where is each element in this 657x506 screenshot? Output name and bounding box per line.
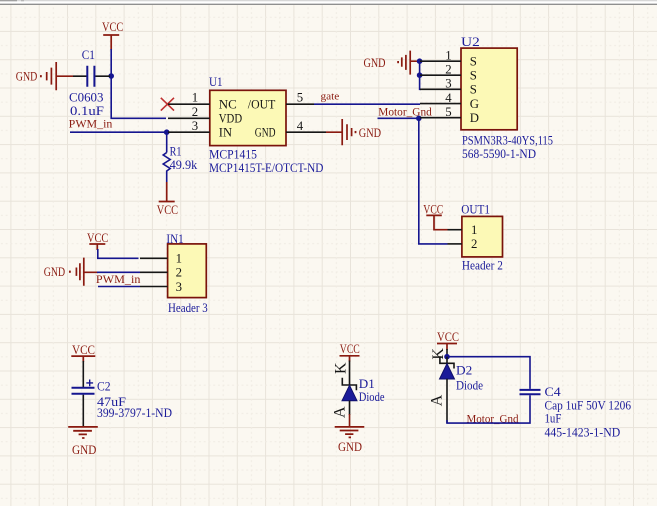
svg-text:1: 1 <box>176 252 182 266</box>
power port GND (sideways mirrored, U1 pin 4) <box>326 119 381 145</box>
svg-text:GND: GND <box>44 265 65 279</box>
power port VCC (IN1) <box>87 231 108 250</box>
capacitor C1 <box>69 48 110 118</box>
svg-text:2: 2 <box>192 105 198 119</box>
svg-text:3: 3 <box>176 280 182 294</box>
junction U2 pin2 <box>417 72 423 78</box>
power port GND (sideways, at C1) <box>16 62 73 90</box>
svg-text:MCP1415: MCP1415 <box>209 148 257 162</box>
junction at C1 right plate <box>108 73 114 79</box>
wire cathode node to C4 top <box>447 357 530 389</box>
svg-text:VDD: VDD <box>219 112 242 126</box>
svg-text:PWM_in: PWM_in <box>96 274 141 286</box>
wire PWM_in stub to IN1 pin 3 <box>98 286 140 288</box>
wire Motor_Gnd stub to U2 pin 5 and down to OUT1 pin 2 <box>378 118 448 244</box>
svg-text:S: S <box>470 55 477 69</box>
capacitor C2 (polarized) <box>72 361 173 427</box>
svg-text:VCC: VCC <box>423 202 443 216</box>
pin 1 <box>168 103 210 105</box>
pin 1 <box>448 229 462 231</box>
svg-text:IN: IN <box>219 126 232 140</box>
svg-text:Diode: Diode <box>359 390 385 404</box>
power port GND (sideways, U2 sources) <box>364 51 420 75</box>
capacitor C4 <box>520 385 632 439</box>
svg-text:A: A <box>331 406 348 418</box>
svg-text:2: 2 <box>471 237 477 251</box>
wire VCC down to C1 junction and to U1 pin 2 <box>111 49 166 118</box>
pin 4 <box>286 131 326 133</box>
svg-text:VCC: VCC <box>87 231 108 245</box>
svg-text:4: 4 <box>445 91 452 105</box>
junction D2 cathode node <box>444 354 450 360</box>
svg-text:C0603: C0603 <box>69 91 104 105</box>
svg-text:U2: U2 <box>461 35 480 49</box>
svg-text:D: D <box>470 111 479 125</box>
svg-text:A: A <box>429 394 446 406</box>
wire C4 bottom to D2 anode <box>447 395 530 423</box>
svg-text:Cap 1uF 50V 1206: Cap 1uF 50V 1206 <box>545 398 632 412</box>
svg-text:1: 1 <box>192 91 198 105</box>
svg-text:0.1uF: 0.1uF <box>70 104 104 118</box>
connector IN1 Header 3 <box>140 232 208 315</box>
svg-text:IN1: IN1 <box>166 232 183 246</box>
pin 3 <box>420 88 461 90</box>
svg-text:C2: C2 <box>97 379 111 393</box>
power port VCC (below R1) <box>157 182 178 217</box>
svg-text:GND: GND <box>255 126 276 140</box>
svg-text:VCC: VCC <box>340 342 360 356</box>
pin 4 <box>420 103 461 105</box>
diode D2 <box>429 348 484 424</box>
pin 2 <box>168 117 210 119</box>
power port GND (earth, C2) <box>68 427 98 457</box>
svg-text:Diode: Diode <box>456 379 483 393</box>
svg-text:C4: C4 <box>545 385 562 399</box>
pin 5 <box>286 103 314 105</box>
pin 1 <box>140 257 168 259</box>
power port VCC (OUT1) <box>423 202 447 229</box>
svg-text:MCP1415T-E/OTCT-ND: MCP1415T-E/OTCT-ND <box>209 161 323 175</box>
svg-text:D2: D2 <box>456 363 472 377</box>
wire U2 source pins bus <box>420 61 421 89</box>
svg-text:568-5590-1-ND: 568-5590-1-ND <box>462 147 536 161</box>
svg-text:GND: GND <box>338 440 362 454</box>
connector OUT1 Header 2 <box>448 203 503 273</box>
power port VCC (D1) <box>340 342 360 362</box>
wire gate: U1 pin5 to U2 pin4 <box>314 103 420 105</box>
svg-text:1: 1 <box>471 223 477 237</box>
pin 1 <box>420 60 461 62</box>
svg-text:VCC: VCC <box>102 20 123 34</box>
svg-text:GND: GND <box>364 56 386 70</box>
svg-text:2: 2 <box>176 266 182 280</box>
svg-text:NC: NC <box>219 98 237 112</box>
junction at U1 pin3 / R1 <box>164 129 170 135</box>
svg-text:3: 3 <box>192 119 198 133</box>
transistor U2 PSMN3R3-40YS <box>420 35 553 161</box>
svg-text:/OUT: /OUT <box>248 98 276 112</box>
no-ERC marker (red X) on U1 pin 1 <box>161 98 174 111</box>
svg-text:K: K <box>333 362 350 374</box>
svg-text:G: G <box>470 97 479 111</box>
power port VCC (top, C1/U1 supply) <box>102 20 123 50</box>
diode D1 <box>331 361 384 428</box>
svg-text:U1: U1 <box>209 75 223 89</box>
junction Motor_Gnd <box>416 116 422 122</box>
pin 5 <box>420 117 461 119</box>
wire PWM_in to U1 pin 3 junction <box>70 131 167 133</box>
pin 2 <box>140 271 168 273</box>
svg-text:C1: C1 <box>82 48 95 62</box>
svg-text:3: 3 <box>445 77 451 91</box>
pin 3 <box>168 131 210 133</box>
svg-text:VCC: VCC <box>72 343 95 357</box>
pin 3 <box>140 286 168 288</box>
svg-text:4: 4 <box>297 119 304 133</box>
svg-text:S: S <box>470 69 477 83</box>
svg-text:D1: D1 <box>359 377 375 391</box>
svg-text:2: 2 <box>445 62 451 76</box>
svg-text:VCC: VCC <box>437 330 459 344</box>
svg-text:gate: gate <box>321 91 340 103</box>
wire VCC to IN1 pin 1 <box>98 249 139 258</box>
wire VCC to D2 cathode node <box>446 349 448 357</box>
svg-text:VCC: VCC <box>157 203 178 217</box>
power port VCC (D2) <box>437 330 459 350</box>
pin 2 <box>448 243 462 245</box>
svg-text:GND: GND <box>16 69 38 83</box>
svg-text:Header 2: Header 2 <box>462 259 503 273</box>
svg-text:5: 5 <box>445 105 451 119</box>
svg-text:R1: R1 <box>170 144 182 158</box>
svg-text:K: K <box>430 348 447 360</box>
power port VCC (C2) <box>71 343 95 362</box>
junction U2 pin1 <box>417 58 423 64</box>
svg-text:S: S <box>470 83 477 97</box>
svg-text:PWM_in: PWM_in <box>69 118 113 130</box>
resistor R1 <box>163 132 198 182</box>
wire GND to IN1 pin 2 <box>97 271 140 273</box>
svg-text:1uF: 1uF <box>545 412 562 426</box>
svg-text:OUT1: OUT1 <box>461 203 490 217</box>
pin 2 <box>420 74 461 76</box>
svg-text:5: 5 <box>297 91 303 105</box>
svg-text:445-1423-1-ND: 445-1423-1-ND <box>545 425 621 439</box>
svg-text:49.9k: 49.9k <box>170 158 198 172</box>
driver IC U1 MCP1415 <box>168 75 326 175</box>
svg-text:PSMN3R3-40YS,115: PSMN3R3-40YS,115 <box>462 133 553 147</box>
svg-text:GND: GND <box>72 443 96 457</box>
svg-text:GND: GND <box>359 126 381 140</box>
svg-text:399-3797-1-ND: 399-3797-1-ND <box>97 406 172 420</box>
power port GND (sideways, IN1 pin 2) <box>44 258 98 286</box>
power port GND (earth, D1) <box>335 427 365 454</box>
svg-text:Header 3: Header 3 <box>168 301 208 315</box>
svg-text:1: 1 <box>445 48 451 62</box>
